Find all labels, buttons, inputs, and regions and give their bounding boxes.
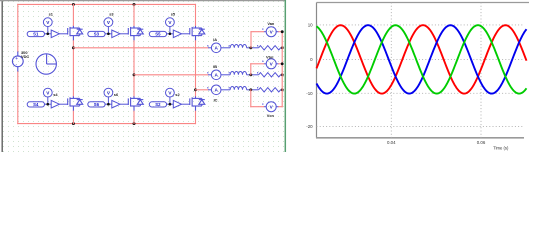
voltage probe s6 [104, 88, 113, 104]
svg-text:Van: Van [267, 21, 275, 26]
wire: Vcn left [250, 90, 252, 107]
wire: leg 3 [195, 4, 197, 25]
transistor Q3 [128, 25, 143, 40]
transistor Q1 [68, 25, 83, 40]
svg-text:Vcn: Vcn [267, 113, 275, 118]
transistor Q4 [68, 96, 83, 111]
voltmeter Vbn [264, 59, 279, 69]
svg-text:S4: S4 [33, 102, 39, 107]
svg-text:0.06: 0.06 [477, 140, 486, 145]
svg-text:VDC: VDC [21, 54, 29, 59]
wire: Vbn right [279, 63, 282, 65]
voltmeter Vcn [264, 102, 279, 112]
svg-text:S2: S2 [155, 102, 161, 107]
window left border [1, 0, 3, 152]
svg-text:10: 10 [308, 23, 313, 28]
svg-text:Vbn: Vbn [266, 55, 274, 60]
node: probe tap [169, 103, 172, 106]
node: neutral junction A [281, 46, 284, 49]
svg-text:IC: IC [214, 97, 218, 102]
wire: phase B feeder [134, 74, 208, 76]
svg-text:S3: S3 [94, 32, 100, 37]
svg-text:S6: S6 [94, 102, 100, 107]
svg-text:A: A [215, 88, 219, 93]
wire: top DC bus [18, 3, 196, 5]
node: neutral junction B [281, 73, 284, 76]
node: probe tap [169, 32, 172, 35]
svg-text:IB: IB [213, 64, 217, 69]
label 300 VDC [21, 50, 29, 59]
ammeter IC [208, 85, 230, 95]
voltmeter Van [264, 27, 279, 37]
transistor Q5 [190, 25, 205, 40]
wire: leg 1 [72, 4, 74, 25]
voltage probe s3 [104, 18, 113, 34]
svg-text:+: + [15, 56, 18, 61]
voltage probe s1 [43, 18, 52, 34]
svg-text:A: A [215, 73, 219, 78]
wire: Van right [279, 31, 282, 33]
transistor Q2 [190, 96, 205, 111]
node: L-R junction A [249, 46, 252, 49]
wire: bottom DC bus [18, 123, 196, 125]
node: L-R junction B [249, 73, 252, 76]
ammeter IB [208, 70, 230, 80]
wire: leg 2 [133, 4, 135, 25]
transistor Q6 [128, 96, 143, 111]
resistor Rc [259, 88, 281, 92]
ammeter IA [208, 43, 230, 53]
inductor La [230, 45, 246, 48]
window top border [0, 0, 286, 2]
source V1 300 VDC [12, 52, 23, 72]
plot gridlines [317, 24, 525, 26]
gate block S5 [149, 30, 190, 38]
node: phase A tap [72, 46, 75, 49]
resistor Ra [259, 46, 281, 50]
voltage probe s5 [166, 18, 175, 34]
svg-text:IA: IA [213, 37, 217, 42]
resistor Rb [259, 73, 281, 77]
node: phase B tap [133, 73, 136, 76]
gate block S4 [27, 100, 68, 108]
curve IA red [317, 25, 527, 93]
node: top bus junctions [72, 3, 75, 6]
wire: neutral bus [281, 32, 283, 107]
wire: Van left [251, 31, 264, 33]
node: probe tap [107, 103, 110, 106]
svg-text:-10: -10 [306, 91, 313, 96]
wire: Vbn left [251, 63, 264, 65]
gate block S3 [88, 30, 129, 38]
svg-text:Time (s): Time (s) [493, 145, 509, 150]
wire: Vcn right [279, 106, 282, 108]
node: L-R junction C [249, 88, 252, 91]
gate block S1 [27, 30, 68, 38]
gate block S6 [88, 100, 129, 108]
node: bottom bus junctions [72, 122, 75, 125]
node: probe tap [107, 32, 110, 35]
wire: left DC bus [17, 4, 19, 51]
svg-text:A: A [215, 46, 219, 51]
inductor Lb [230, 72, 246, 75]
gate block S2 [149, 100, 190, 108]
svg-text:S1: S1 [33, 32, 39, 37]
curve IC green [317, 25, 527, 93]
wire: phase A feeder [73, 47, 208, 49]
node: neutral junction C [281, 88, 284, 91]
window green splitter [284, 0, 286, 152]
inductor Lc [230, 87, 246, 90]
voltage probe s2 [166, 88, 175, 104]
svg-text:S5: S5 [155, 32, 161, 37]
svg-text:0.04: 0.04 [387, 140, 396, 145]
plot frame [316, 3, 318, 138]
voltage probe s4 [43, 88, 52, 104]
curve IB blue [317, 25, 527, 93]
simulation control clock [36, 54, 56, 74]
svg-text:-20: -20 [306, 124, 313, 129]
node: probe tap [46, 32, 49, 35]
node: probe tap [46, 103, 49, 106]
wire: phase C feeder [196, 89, 209, 91]
node: phase C tap [194, 88, 197, 91]
